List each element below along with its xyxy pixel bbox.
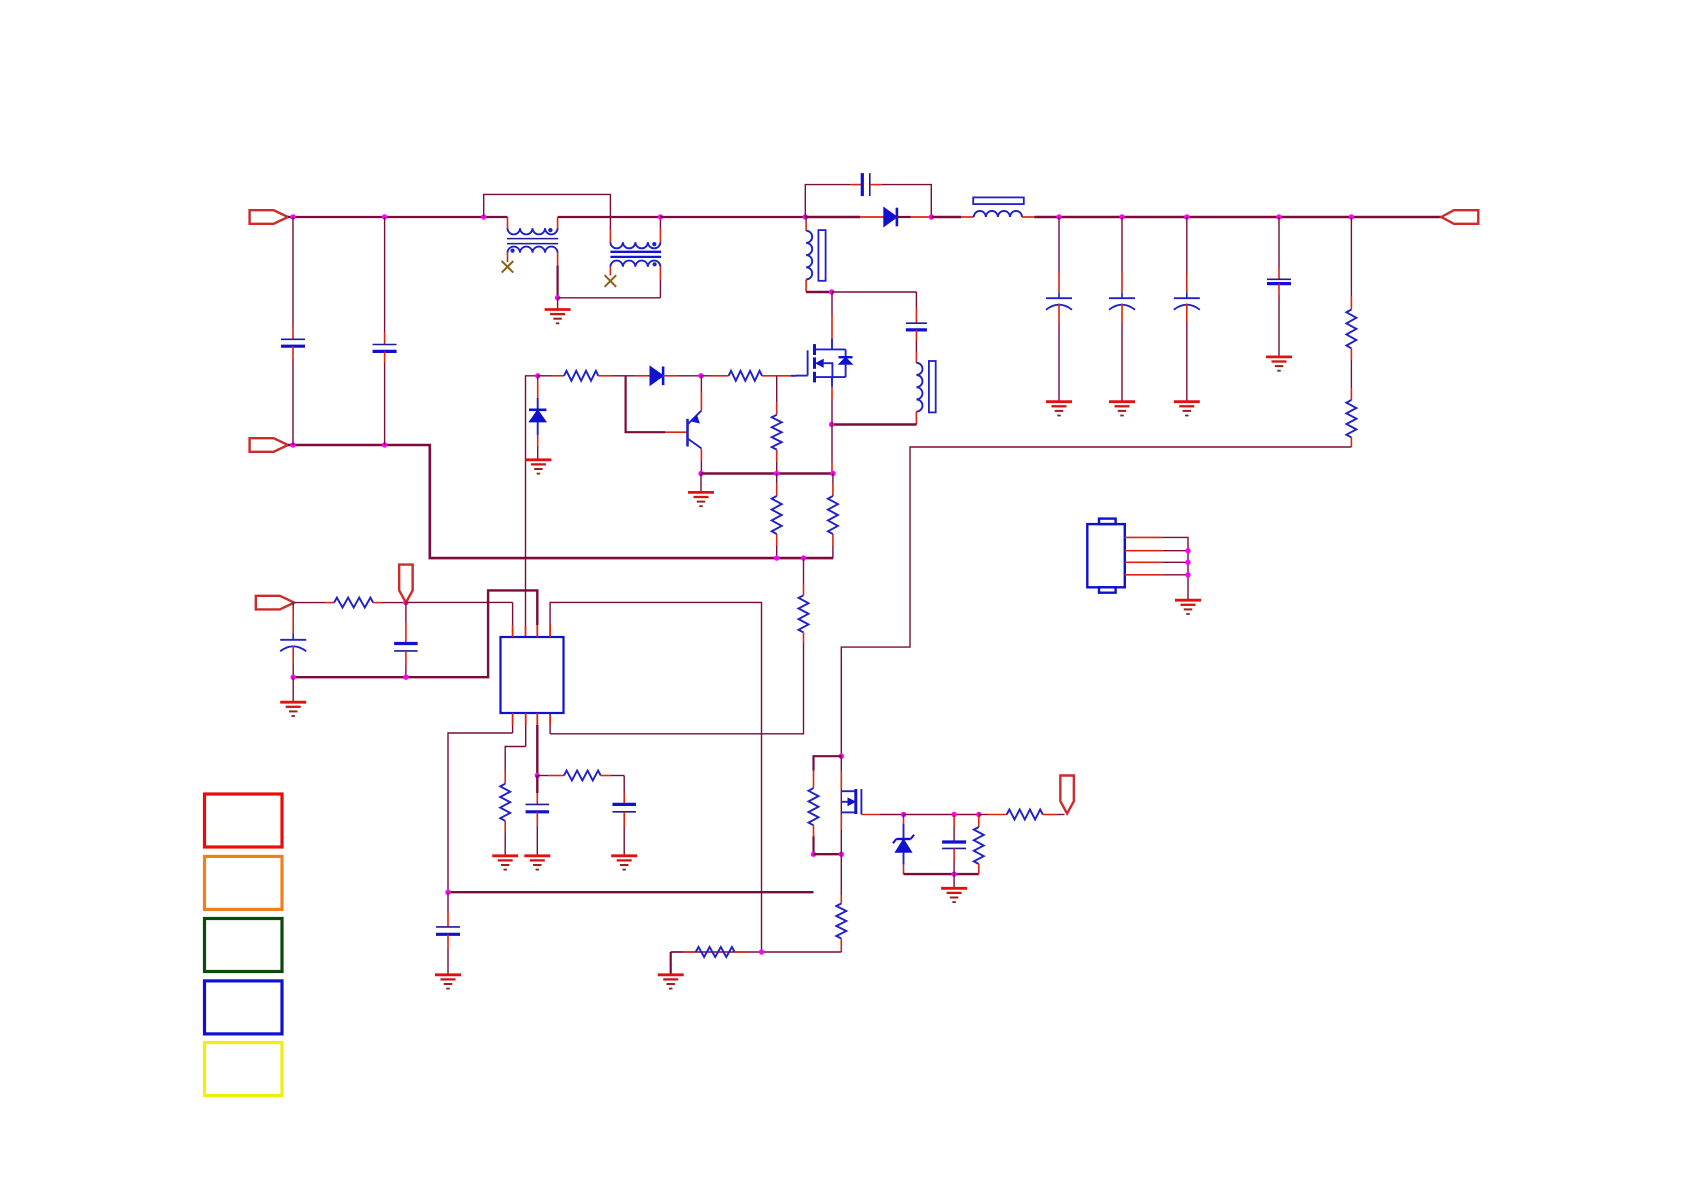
wire PNP base branch bbox=[626, 376, 665, 432]
resistor R4 gate bbox=[701, 375, 711, 377]
capacitor C3 snubber bbox=[861, 173, 864, 196]
legend box green bbox=[205, 919, 283, 972]
connector OUT1 output bbox=[1441, 210, 1478, 224]
zener Z1 lead bbox=[537, 376, 539, 380]
junction gate node at Q2 emitter bbox=[698, 373, 703, 378]
capacitor C14 bbox=[953, 815, 955, 828]
IC U1 pin T4 lead bbox=[549, 625, 551, 637]
junction gate network gnd bbox=[951, 871, 956, 876]
resistor R14 bbox=[979, 814, 988, 816]
connector J1 pin4 wire bbox=[1125, 574, 1162, 576]
junction C10 node bbox=[445, 890, 450, 895]
wire snubber return bbox=[870, 184, 882, 186]
junction J1 pin2 bbox=[1185, 548, 1190, 553]
clamp winding lead bottom bbox=[915, 412, 917, 425]
no-connect X2 bbox=[605, 275, 617, 287]
capacitor C11 bbox=[623, 776, 625, 794]
IC U1 pin B3 lead bbox=[536, 713, 538, 725]
legend box blue bbox=[205, 981, 283, 1034]
resistor R5 gate pulldown bbox=[776, 376, 778, 402]
junction primary to clamp bbox=[829, 289, 834, 294]
junction gate network at C14 bbox=[951, 812, 956, 817]
legend box orange bbox=[205, 856, 283, 909]
IC U1 pin B4 lead bbox=[549, 713, 551, 725]
choke T2 top winding dot bbox=[652, 242, 656, 246]
choke T1 bottom winding dot bbox=[510, 249, 514, 253]
resistor R13 bbox=[978, 815, 980, 828]
inductor L1 lead left bbox=[961, 216, 974, 218]
MOSFET Q1 source lead bbox=[831, 377, 833, 387]
wire top rail between chokes bbox=[558, 216, 661, 218]
capacitor C1 X-cap bbox=[292, 217, 294, 327]
legend box red bbox=[205, 794, 283, 847]
no-connect X1 bbox=[502, 261, 514, 273]
choke T1 pin3 lead no-connect bbox=[507, 253, 509, 262]
resistor R9 bbox=[504, 771, 506, 784]
junction return rail at R6 bbox=[774, 555, 779, 560]
junction sense node at Q2 bbox=[698, 471, 703, 476]
diode D2 cathode lead bbox=[663, 375, 677, 377]
ground GND2 bbox=[1046, 400, 1072, 403]
junction rail at C6 bbox=[1184, 214, 1189, 219]
junction gate network at R13 bbox=[976, 812, 981, 817]
capacitor C7 bbox=[1278, 217, 1280, 268]
resistor R16 bbox=[671, 951, 683, 953]
IC U1 pin B1 lead bbox=[512, 713, 514, 725]
junction gate node zener bbox=[535, 373, 540, 378]
MOSFET Q1 bbox=[813, 344, 816, 355]
inductor L1 bbox=[974, 211, 1022, 217]
transformer primary winding L2 bbox=[806, 231, 812, 280]
wire B1 to C10 bbox=[448, 733, 513, 892]
wire gate node left bbox=[526, 376, 538, 625]
ground GND3 bbox=[1109, 400, 1135, 403]
wire T4 to lower network bbox=[550, 602, 761, 952]
ground GND8 bbox=[292, 677, 294, 702]
junction top rail at C2 bbox=[382, 214, 387, 219]
junction Q3 lower node right bbox=[839, 852, 844, 857]
junction J1 pin4 bbox=[1185, 572, 1190, 577]
choke T1 core bbox=[507, 238, 558, 240]
inductor L1 lead right bbox=[1022, 216, 1034, 218]
ground GND5 bbox=[1266, 355, 1292, 358]
junction J1 pin3 bbox=[1185, 560, 1190, 565]
junction bottom rail at C1 bbox=[290, 442, 295, 447]
ground GND9 bbox=[492, 854, 518, 857]
junction rail at C5 bbox=[1119, 214, 1124, 219]
wire gate network bbox=[904, 814, 979, 816]
choke T1 pin4 lead bbox=[557, 253, 559, 266]
wire B2 to R9 bbox=[505, 747, 526, 772]
transformer primary winding L2 lead bbox=[805, 217, 807, 222]
choke T1 bottom winding bbox=[508, 247, 558, 253]
transformer primary lead bottom bbox=[805, 280, 807, 292]
wire R8 to IC pin B4 bbox=[803, 632, 805, 643]
wire feedback thick bbox=[448, 891, 814, 893]
capacitor C9 timing bbox=[536, 776, 538, 794]
ground GND7 bbox=[700, 474, 702, 493]
IC U1 pin B2 lead bbox=[525, 713, 527, 725]
capacitor C13 vcc bbox=[405, 603, 407, 622]
wire Q3 lower node bbox=[814, 853, 842, 855]
zener Z2 bbox=[903, 815, 905, 819]
diode D3 gate clamp bbox=[529, 408, 546, 411]
junction sense node at Q1 source bbox=[830, 471, 835, 476]
junction rail after D1 bbox=[929, 214, 934, 219]
wire clamp branch bbox=[832, 291, 917, 293]
wire choke ground link bbox=[558, 297, 661, 299]
MOSFET Q3 drain lead bbox=[840, 756, 842, 771]
diode D2 bbox=[650, 367, 663, 386]
transistor Q2 emitter lead bbox=[700, 392, 702, 411]
ground GND13 bbox=[670, 952, 672, 975]
connector CN3 aux input bbox=[256, 596, 294, 610]
choke T1 pin2 lead bbox=[557, 217, 559, 228]
choke T2 pin4 lead bbox=[659, 267, 661, 280]
IC U1 controller bbox=[501, 637, 564, 713]
wire R11 to VCC node bbox=[373, 602, 382, 604]
ground GND14 bbox=[953, 874, 955, 888]
wire Q3 drain resistor branch bbox=[814, 756, 842, 770]
junction rail at transformer primary bbox=[803, 214, 808, 219]
IC U1 pin T1 lead bbox=[512, 625, 514, 637]
capacitor C2 X-cap bbox=[384, 217, 386, 332]
choke T2 bottom winding dot bbox=[653, 262, 657, 266]
power flag PF2 bbox=[1060, 776, 1074, 814]
MOSFET Q1 drain lead bbox=[831, 292, 833, 315]
wire top rail choke T2 to transformer bbox=[660, 216, 805, 218]
wire Q1 source to sense bbox=[831, 425, 833, 463]
capacitor C10 bbox=[447, 892, 449, 912]
transistor Q2 PNP bbox=[686, 419, 689, 447]
wire rail D1 to L1 bbox=[931, 216, 961, 219]
resistor R10 bbox=[537, 775, 548, 777]
resistor R6 sense bbox=[776, 474, 778, 484]
capacitor C5 electrolytic bbox=[1121, 217, 1123, 273]
diode D1 cathode lead bbox=[896, 216, 910, 218]
wire CN3 to R11 bbox=[294, 602, 325, 604]
ground GND11 bbox=[611, 854, 637, 857]
resistor R1 bbox=[1346, 310, 1356, 349]
junction rail at divider bbox=[1349, 214, 1354, 219]
MOSFET Q3 bbox=[840, 789, 842, 815]
wire gate to diode D2 bbox=[626, 375, 636, 377]
junction Q3 lower node left bbox=[811, 852, 816, 857]
connector J1 pin1 wire bbox=[1125, 536, 1162, 538]
wire source sense rail bbox=[671, 951, 842, 953]
capacitor C8 clamp bbox=[915, 292, 917, 307]
ground GND1 bbox=[557, 298, 559, 310]
wire clamp bottom bbox=[832, 423, 917, 425]
junction VCC node bbox=[403, 600, 408, 605]
capacitor C4 electrolytic bbox=[1058, 217, 1060, 273]
choke T1 pin1 lead bbox=[507, 217, 509, 228]
choke T2 core bbox=[610, 251, 661, 253]
capacitor C6 electrolytic bbox=[1186, 217, 1188, 273]
clamp winding L3 bbox=[916, 363, 922, 412]
IC U1 pin2 lead bbox=[525, 625, 527, 637]
junction sense node at R5 bbox=[774, 471, 779, 476]
junction bottom rail at C2 bbox=[382, 442, 387, 447]
wire gate network bottom bbox=[904, 873, 979, 875]
ground GND10 bbox=[524, 854, 550, 857]
junction sense rail bbox=[759, 949, 764, 954]
MOSFET Q3 source lead bbox=[840, 815, 842, 831]
ground GND4 bbox=[1174, 400, 1200, 403]
resistor R7 sense bbox=[832, 474, 834, 484]
junction top rail at C1 bbox=[290, 214, 295, 219]
capacitor C12 aux bbox=[292, 603, 294, 610]
junction top rail at bypass bbox=[481, 214, 486, 219]
ground GND15 bbox=[1175, 599, 1201, 602]
diode D1 bbox=[884, 208, 897, 227]
resistor R11 bbox=[334, 598, 373, 608]
junction choke common ground bbox=[555, 295, 560, 300]
wire R1 to R2 bbox=[1350, 348, 1352, 360]
resistor R2 bbox=[1346, 400, 1356, 437]
choke T2 top winding bbox=[610, 242, 660, 248]
junction IC timing node bbox=[535, 773, 540, 778]
choke T2 bottom winding bbox=[610, 261, 660, 267]
choke T2 pin3 lead no-connect bbox=[609, 267, 611, 276]
resistor R8 bbox=[799, 595, 809, 632]
choke T1 top winding dot bbox=[548, 228, 552, 232]
junction rail at C7 bbox=[1276, 214, 1281, 219]
choke T2 pin2 lead bbox=[659, 228, 661, 242]
wire bottom rail bbox=[288, 445, 833, 558]
junction Q1 source node bbox=[829, 422, 834, 427]
wire sense node bbox=[701, 472, 833, 475]
connector J1 bbox=[1087, 524, 1125, 587]
junction aux gnd at C13 bbox=[403, 675, 408, 680]
wire divider to feedback bbox=[1350, 437, 1352, 447]
junction gate network at Z2 bbox=[901, 812, 906, 817]
connector CN1 line-in bbox=[250, 210, 288, 224]
wire top rail left segment bbox=[288, 216, 508, 218]
choke T1 top winding bbox=[508, 228, 558, 234]
connector CN2 neutral-in bbox=[250, 438, 288, 452]
ground GND6 bbox=[525, 458, 551, 461]
connector J1 pin3 wire bbox=[1125, 561, 1162, 563]
junction aux gnd at C12 bbox=[291, 675, 296, 680]
junction return rail at feedback divider bbox=[801, 555, 806, 560]
wire Q3 gate bbox=[861, 814, 880, 816]
ground GND12 bbox=[435, 973, 461, 976]
connector J1 pin2 wire bbox=[1125, 550, 1162, 552]
junction rail at C4 bbox=[1056, 214, 1061, 219]
resistor R12 bbox=[813, 771, 815, 789]
choke T2 pin1 lead bbox=[609, 230, 611, 243]
junction Q3 drain node bbox=[839, 754, 844, 759]
wire snubber top bbox=[805, 185, 850, 217]
wire rail at diode D1 bbox=[805, 216, 860, 219]
resistor R1 divider top lead bbox=[1350, 217, 1352, 296]
legend box yellow bbox=[205, 1043, 283, 1096]
resistor R8 feedback top lead bbox=[803, 558, 805, 584]
wire VCC node to IC pin T1 bbox=[406, 601, 513, 603]
wire bypass over choke T1 bbox=[484, 194, 611, 229]
IC U1 pin T3 lead bbox=[536, 625, 538, 637]
resistor R3 gate bbox=[538, 375, 553, 377]
wire top rail output section bbox=[1034, 216, 1441, 219]
diode D3 anode lead bbox=[537, 422, 539, 435]
transistor Q2 collector lead bbox=[700, 448, 702, 461]
wire IC ground path bbox=[293, 590, 537, 677]
junction top rail at choke T2 bbox=[658, 214, 663, 219]
power flag PF1 bbox=[399, 565, 413, 603]
resistor R15 bbox=[840, 854, 842, 895]
